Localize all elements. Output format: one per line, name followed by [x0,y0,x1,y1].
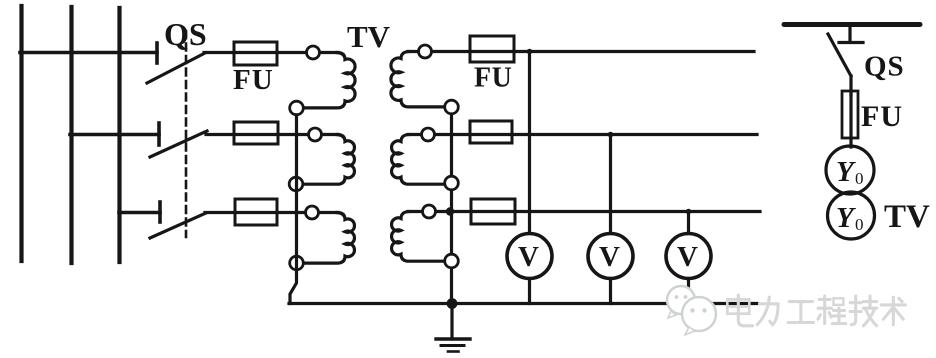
single-line QS contact stub [839,27,863,43]
junction V3 tap [686,209,692,215]
wire A to fuse [204,51,338,54]
watermark logo bubbles [667,286,716,335]
watermark text dian li gong cheng ji shu [727,295,905,326]
node phase B contact tick [157,123,161,145]
svg-text:V: V [518,241,539,273]
fuse FU phase c secondary [471,199,515,224]
fuse FU phase C primary [235,199,277,225]
junction V2 tap [608,132,614,138]
wire secondary neutral [450,107,453,304]
single-line wire FU internal [849,91,852,138]
svg-text:V: V [677,241,698,273]
wire voltmeter V2 drop [609,135,612,234]
wire secondary phase b output [408,133,757,136]
junction secondary neutral crossing [446,207,454,215]
transformer TV secondary winding c [392,212,452,262]
voltmeter V2 [588,234,633,279]
fuse FU phase b secondary [470,121,512,143]
svg-text:Y: Y [836,202,856,234]
svg-text:FU: FU [474,63,512,94]
wire neutral bottom bus [289,302,757,305]
svg-text:0: 0 [855,215,864,234]
node primary B terminal [309,128,322,141]
wire V2 to neutral [609,279,612,304]
switch QS blade B [150,131,207,157]
node phase A contact tick [155,43,159,63]
svg-text:TV: TV [884,199,930,235]
svg-text:FU: FU [233,64,274,96]
node primary neutral terminal B [289,177,303,191]
single-line wire QS to FU [849,76,852,95]
node secondary b terminal [422,128,435,141]
single-line wire FU to TV [849,138,852,147]
wire C to fuse [205,211,338,214]
wire voltmeter V3 drop [687,212,690,234]
transformer TV primary winding B [296,135,354,185]
wire primary neutral [290,115,297,304]
transformer TV symbol secondary circle [828,192,875,239]
wire V1 to neutral [528,279,531,304]
wire secondary phase c output [408,210,760,213]
node secondary neutral terminal b [445,176,459,190]
junction ground node [447,298,458,309]
node secondary c terminal [423,205,436,218]
wire secondary phase a output [408,50,754,53]
bus bar L3 [117,8,121,262]
svg-text:Y: Y [836,156,856,188]
svg-text:V: V [599,241,620,273]
node secondary neutral terminal a [445,100,459,114]
node primary C terminal [306,206,319,219]
node phase C contact tick [158,202,162,222]
wire B to fuse [206,133,338,136]
bus bar L2 [69,7,73,263]
wire phase B tap [70,133,159,137]
transformer TV primary winding A [297,53,355,108]
QS linkage dashed line [185,31,188,237]
ground [436,304,470,352]
svg-text:QS: QS [164,16,207,52]
fuse FU phase A primary [234,42,277,65]
wire phase A tap [20,51,157,55]
node primary neutral terminal C [290,256,304,270]
junction V1 tap [527,49,533,55]
node secondary neutral terminal c [445,254,459,268]
fuse FU phase a secondary [470,36,514,62]
transformer TV symbol primary circle [826,146,874,194]
voltmeter V3 [666,234,711,279]
svg-text:0: 0 [855,169,864,188]
svg-text:TV: TV [347,19,391,54]
transformer TV primary winding C [297,213,354,264]
voltmeter V1 [507,234,552,279]
svg-text:QS: QS [864,51,905,83]
wire V3 to neutral [687,279,690,304]
transformer TV secondary winding b [392,135,452,185]
transformer TV secondary winding a [391,52,452,107]
single-line diagram: busbar [784,22,920,27]
single-line fuse FU [842,91,858,138]
node secondary a terminal [419,45,432,58]
switch QS blade A [147,53,205,83]
single-line QS blade [828,34,851,76]
svg-text:FU: FU [861,100,903,133]
node primary A terminal [307,46,320,59]
wire voltmeter V1 drop [528,52,531,234]
bus bar L1 [19,6,23,261]
fuse FU phase B primary [234,122,278,144]
switch QS blade C [150,213,206,238]
node primary neutral terminal A [290,101,304,115]
wire phase C tap [119,211,160,215]
